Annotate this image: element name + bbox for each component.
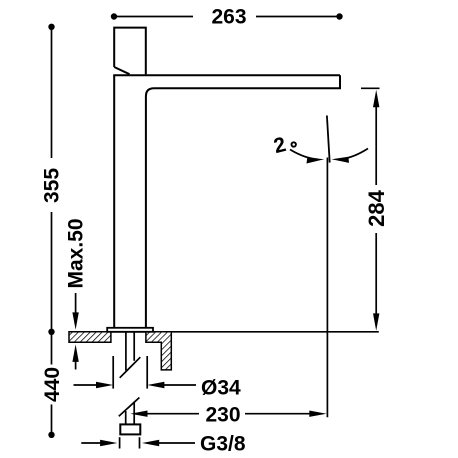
dimension 230 left arrow: [130, 411, 147, 417]
faucet base flange: [107, 328, 153, 332]
dimension 284 vertical line with arrows: [373, 90, 379, 108]
svg-text:G3/8: G3/8: [200, 433, 246, 456]
threaded shaft upper segment: [126, 332, 134, 371]
svg-text:440: 440: [41, 367, 64, 402]
water stream vertical reference line: [326, 158, 328, 418]
counter hatched slab left part: [69, 332, 111, 342]
counter hatched slab right part (L-shape): [146, 332, 171, 370]
svg-text:263: 263: [211, 6, 246, 29]
Ø34 left arrow: [74, 384, 98, 386]
handle chamfer: [114, 67, 129, 74]
svg-text:230: 230: [206, 404, 241, 427]
G3/8 right arrow and leader: [142, 440, 159, 446]
2 deg left leader arc with arrow: [290, 150, 318, 160]
dimension G3/8 ticks: [120, 437, 140, 448]
svg-text:284: 284: [364, 189, 389, 226]
dot at counter level: [48, 329, 54, 335]
spout top line: [113, 74, 340, 76]
lower break diagonal: [119, 398, 140, 417]
G3/8 fitting: [120, 424, 140, 434]
Ø34 right arrow and leader: [147, 382, 164, 388]
faucet handle: [114, 28, 146, 75]
dimension 355/440 vertical line: [51, 27, 53, 435]
faucet body and spout outline: [113, 75, 340, 328]
upper break diagonal: [120, 357, 141, 378]
threaded shaft lower segment: [126, 402, 135, 425]
dimension 284 top extension line: [361, 87, 380, 89]
dimension 230 right arrow to stream: [245, 413, 310, 415]
body left edge: [113, 75, 115, 328]
svg-text:355: 355: [41, 168, 64, 203]
Max.50 dimension line upper with down arrow: [75, 293, 77, 314]
dimension 263 end dots: [111, 13, 117, 19]
dimension Ø34 extension ticks: [113, 356, 147, 389]
svg-text:Ø34: Ø34: [201, 377, 241, 400]
dimension 263 line: [114, 16, 340, 18]
water stream tilted line (2 deg): [327, 116, 330, 163]
2 deg right leader arc with arrow: [341, 149, 368, 160]
Max.50 lower up arrow: [72, 344, 78, 362]
counter top surface line: [69, 331, 379, 333]
dot bottom of 440: [48, 432, 54, 438]
dot top of 355: [48, 24, 54, 30]
G3/8 left arrow: [81, 442, 101, 444]
svg-text:Max.50: Max.50: [65, 218, 88, 288]
spout end and underside with fillet: [146, 75, 340, 328]
